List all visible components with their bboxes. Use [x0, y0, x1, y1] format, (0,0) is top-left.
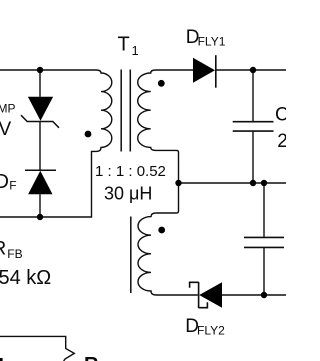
label 54 kOhm [0, 267, 51, 289]
label R (cut at bottom edge) [84, 354, 99, 361]
wire: clamp branch top lead [39, 70, 41, 97]
label D_FLY1 [186, 27, 226, 48]
capacitor C_OUT1 plates [233, 122, 274, 131]
capacitor C_OUT1 bottom lead [252, 131, 254, 183]
phase dot: primary [85, 131, 92, 138]
svg-text:C: C [275, 104, 286, 125]
svg-text:R: R [84, 354, 99, 361]
wire: input top rail + transformer primary winding + primary bottom lead + bottom rail [0, 70, 112, 217]
svg-text:D: D [0, 171, 9, 193]
wire: D_FLY1 cathode to output node to right edge [216, 69, 286, 71]
zener D_CLAMP cathode bar with bent ends [21, 115, 59, 128]
label turns ratio 1:1:0.52 [95, 163, 166, 180]
label T1 [118, 34, 139, 58]
label 30 uH [104, 184, 152, 204]
junction node: C_OUT1 / middle rail [250, 180, 256, 186]
junction node: bottom rail / D_F [37, 214, 43, 220]
flag shape bottom-left (cut off) [0, 336, 74, 361]
svg-text:MP: MP [0, 102, 16, 116]
svg-text:FLY1: FLY1 [198, 35, 226, 49]
diode D_FLY2 triangle [199, 282, 222, 307]
transformer T1 core line (lower) [130, 217, 132, 294]
label D_CLAMP (cut at left edge) [0, 102, 16, 116]
svg-text:1 : 1 : 0.52: 1 : 1 : 0.52 [95, 163, 166, 180]
cut-off mark bottom-left corner [0, 358, 3, 361]
svg-text:T: T [118, 34, 130, 56]
svg-text:2: 2 [277, 131, 286, 152]
junction node: center tap [175, 180, 181, 186]
wire: center tap to right edge (middle rail) [179, 182, 287, 184]
capacitor C_OUT2 top lead [263, 183, 265, 237]
svg-text:F: F [9, 179, 16, 193]
diode D_F triangle [28, 171, 52, 194]
svg-text:30 μH: 30 μH [104, 184, 152, 204]
zener D_CLAMP triangle [28, 97, 53, 121]
wire: D_CLAMP to D_F [39, 122, 41, 171]
junction node: D_FLY2 output [261, 292, 267, 298]
diode D_FLY2 schottky cathode bar with hooks [190, 282, 208, 308]
wire: D_FLY2 anode to bottom-right node to right edge [222, 294, 286, 296]
junction node: C_OUT2 / middle rail [261, 180, 267, 186]
phase dot: secondary 2 [158, 227, 165, 234]
svg-text:FLY2: FLY2 [197, 323, 225, 337]
transformer T1 core lines (upper pair) [121, 70, 130, 152]
diode D_FLY1 cathode bar [215, 55, 217, 87]
label 22uF (cut at right edge) [277, 131, 288, 152]
label D_FLY2 [185, 316, 225, 337]
phase dot: secondary 1 [158, 80, 165, 87]
label clamp voltage (cut at left edge) [0, 119, 12, 140]
svg-text:54 kΩ: 54 kΩ [0, 267, 51, 289]
svg-text:R: R [0, 239, 6, 260]
junction node: D_FLY1 output [250, 67, 256, 73]
capacitor C_OUT2 plates [244, 237, 284, 247]
diode D_F cathode bar [25, 169, 56, 171]
junction node: input rail / clamp [37, 67, 43, 73]
svg-text:FB: FB [7, 247, 22, 261]
wire: secondary 1 top lead + winding + center-tap link + secondary 2 winding + bottom lead [138, 70, 198, 295]
label C_OUT1 (cut at right edge) [275, 104, 289, 125]
capacitor C_OUT1 top lead [252, 70, 254, 121]
capacitor C_OUT2 bottom lead [263, 247, 265, 295]
diode D_FLY1 triangle [193, 58, 215, 83]
svg-text:1: 1 [132, 43, 139, 58]
label D_F (cut at left edge) [0, 171, 17, 193]
wire: D_F anode to bottom rail [39, 194, 41, 217]
label R_FB (cut at left edge) [0, 239, 23, 262]
svg-text:V: V [0, 119, 12, 140]
